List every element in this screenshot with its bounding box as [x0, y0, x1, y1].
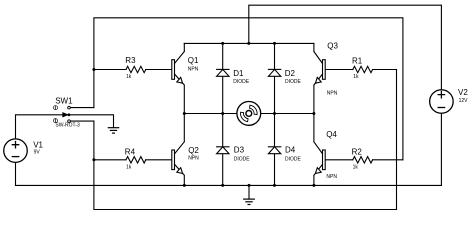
resistor R1 [353, 66, 373, 72]
wire V2 minus to bottom rail [440, 114, 442, 186]
junction top rail center [247, 42, 250, 45]
motor M (DC motor symbol) [237, 102, 261, 126]
junction bottom rail D4 [273, 184, 276, 187]
diode D3 [217, 147, 229, 154]
wire base-net-B: SW lower contact down, bottom run, up to R1 right [94, 70, 397, 210]
wire D4 vertical [274, 114, 276, 186]
svg-text:9V: 9V [34, 149, 41, 155]
svg-text:D4: D4 [285, 146, 296, 155]
junction top rail D1 [221, 42, 224, 45]
transistor Q3 [314, 43, 325, 113]
svg-text:NPN: NPN [326, 174, 337, 180]
svg-text:1k: 1k [126, 74, 132, 80]
wire SW1 upper contact to vertical [70, 107, 94, 109]
wire bottom rail (ground net V1- to V2-) [16, 184, 442, 186]
svg-text:DIODE: DIODE [234, 156, 251, 162]
transistor Q4 [314, 114, 325, 186]
svg-text:D2: D2 [285, 69, 296, 78]
resistor R2 [353, 157, 373, 163]
ground (switch middle position) [108, 128, 118, 133]
svg-text:Q2: Q2 [188, 146, 199, 155]
svg-text:Q1: Q1 [188, 56, 199, 65]
svg-text:V1: V1 [33, 140, 43, 149]
junction mid rail Q3 emitter [312, 112, 315, 115]
ground (main, bottom rail) [244, 199, 255, 204]
svg-text:DIODE: DIODE [285, 79, 302, 85]
voltage source V2 [430, 90, 454, 114]
wire R2 leads [325, 159, 403, 161]
junction mid rail Q1 emitter [183, 112, 186, 115]
wire SW1 middle contact to ground [70, 115, 114, 128]
svg-text:1k: 1k [126, 164, 132, 170]
wire R1 leads [325, 69, 396, 71]
svg-text:R4: R4 [125, 147, 136, 156]
svg-text:NPN: NPN [188, 66, 199, 72]
wire R3 leads [94, 69, 172, 71]
svg-text:Q3: Q3 [327, 41, 338, 50]
voltage source V1 [4, 139, 28, 163]
svg-text:Q4: Q4 [326, 130, 337, 139]
svg-text:D1: D1 [233, 69, 244, 78]
svg-text:1k: 1k [353, 74, 359, 80]
junction R3 tap [92, 68, 95, 71]
svg-text:V2: V2 [458, 88, 468, 97]
junction mid rail D2 [273, 112, 276, 115]
switch SW1 rotary [54, 106, 71, 123]
wire V1 minus to bottom rail [15, 162, 17, 185]
svg-text:DIODE: DIODE [233, 79, 250, 85]
resistor R4 [126, 157, 146, 163]
svg-text:DIODE: DIODE [285, 156, 302, 162]
svg-text:R1: R1 [352, 57, 363, 66]
wire D3 vertical [222, 114, 224, 186]
wire D1 vertical [222, 43, 224, 113]
wire top net: center rail to V2 plus [249, 5, 442, 89]
junction R4 tap [92, 158, 95, 161]
diode D2 [268, 69, 280, 76]
wire main ground stem [248, 185, 250, 198]
junction bottom rail ground [248, 184, 251, 187]
junction bottom rail Q2 emitter [183, 184, 186, 187]
junction top rail D2 [273, 42, 276, 45]
svg-text:R2: R2 [352, 148, 363, 157]
resistor R3 [126, 66, 146, 72]
transistor Q2 [172, 114, 185, 186]
wire top rail of bridge [184, 42, 314, 44]
svg-text:D3: D3 [234, 146, 245, 155]
svg-text:NPN: NPN [327, 91, 338, 97]
wire V1 top to switch pole [16, 115, 63, 139]
junction bottom rail D3 [221, 184, 224, 187]
svg-text:1k: 1k [353, 164, 359, 170]
junction mid rail D1 [221, 112, 224, 115]
wire R4 leads [94, 159, 172, 161]
junction bottom rail Q4 emitter [312, 184, 315, 187]
svg-text:12V: 12V [459, 98, 469, 104]
wire D2 vertical [274, 43, 276, 113]
wire mid rail (motor node) [184, 113, 314, 115]
svg-text:R3: R3 [125, 56, 136, 65]
transistor Q1 [172, 43, 185, 113]
diode D4 [268, 147, 280, 154]
svg-text:SW-ROT-3: SW-ROT-3 [55, 122, 80, 128]
svg-text:SW1: SW1 [55, 96, 73, 105]
wire SW1 lower contact to vertical [70, 120, 94, 122]
diode D1 [217, 69, 229, 76]
wire base-net-A: y18 rail from x94 to R2 right [94, 18, 403, 160]
svg-text:NPN: NPN [188, 156, 199, 162]
